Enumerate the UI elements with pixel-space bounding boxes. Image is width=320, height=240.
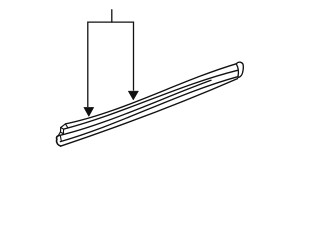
molding line L4 (body top front edge) (60, 77, 237, 142)
rib end face (61, 128, 64, 134)
molding line L2 (front top edge of rib) (64, 70, 238, 129)
leader tick (111, 10, 113, 22)
left arrowhead (84, 107, 94, 116)
right arrowhead (128, 91, 138, 100)
body end step edge (60, 136, 63, 141)
rib end top face cut edges (61, 124, 68, 128)
right end cap outline (236, 62, 243, 77)
right end cap dividing line (236, 64, 238, 76)
body end left edge and bottom round (57, 136, 61, 146)
molding line L3 (rib base groove, fades before right end) (58, 80, 211, 136)
body end top cut edge (58, 132, 60, 136)
molding line L1 (top back edge of rib) (65, 64, 236, 124)
molding line L5 (bottom edge) (61, 79, 238, 147)
bracket with arrow stems (88, 22, 134, 107)
